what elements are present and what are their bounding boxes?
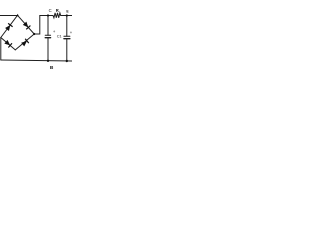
diode D4 (bottom-right edge, points to right vertex) xyxy=(21,39,29,47)
wire AC input top-left xyxy=(0,15,18,17)
wire DC- from left vertex down xyxy=(0,38,2,61)
node top vertex knob xyxy=(17,14,19,16)
wire capacitor C1 top lead xyxy=(66,16,68,37)
wire capacitor C1 bottom lead xyxy=(66,39,68,61)
background xyxy=(0,0,72,72)
node top bus / C junction xyxy=(47,14,49,16)
node bottom bus / C junction xyxy=(47,60,49,62)
wire top bus left of resistor xyxy=(40,15,53,17)
svg-text:C1: C1 xyxy=(57,34,62,39)
wire bridge edge top-left xyxy=(1,15,18,37)
diode D3 (bottom-left edge, points to bottom vertex) xyxy=(4,40,12,48)
resistor R xyxy=(53,13,61,18)
diode D1 (top-left edge, points to top vertex) xyxy=(5,23,13,31)
diode D2 (top-right edge, points to right vertex) xyxy=(23,21,31,29)
svg-text:B: B xyxy=(50,65,54,71)
wire DC+ from right vertex xyxy=(34,16,40,35)
wire capacitor C bottom lead xyxy=(47,38,49,61)
wire bottom bus xyxy=(1,60,72,61)
wire bridge edge top-right xyxy=(18,15,35,34)
node bottom bus / C1 junction xyxy=(66,60,68,62)
node top bus / C1 junction xyxy=(66,14,68,16)
svg-text:R: R xyxy=(56,8,59,13)
svg-text:C: C xyxy=(49,8,52,13)
svg-text:+: + xyxy=(70,30,72,35)
capacitor C1 plates xyxy=(64,35,70,37)
capacitor C plates xyxy=(45,34,50,36)
wire capacitor C top lead xyxy=(47,16,49,36)
wire top bus right of resistor xyxy=(61,15,72,17)
wire bridge edge bottom-right xyxy=(15,34,34,50)
node right vertex xyxy=(33,33,35,35)
wire bridge edge bottom-left xyxy=(1,38,16,50)
